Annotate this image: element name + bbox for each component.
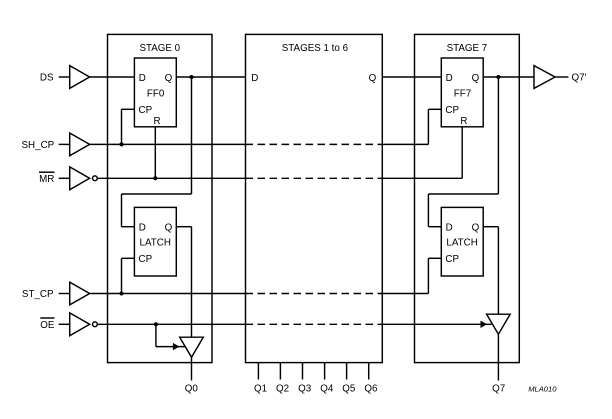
svg-text:Q7': Q7' <box>572 73 587 84</box>
svg-text:DS: DS <box>40 73 54 84</box>
svg-text:D: D <box>446 73 453 84</box>
svg-text:LATCH: LATCH <box>446 237 477 248</box>
svg-text:Q: Q <box>369 73 377 84</box>
svg-text:D: D <box>139 222 146 233</box>
svg-text:Q7: Q7 <box>492 383 505 394</box>
svg-text:D: D <box>251 73 258 84</box>
svg-text:D: D <box>139 73 146 84</box>
svg-text:STAGE 7: STAGE 7 <box>447 43 488 54</box>
svg-text:Q1: Q1 <box>254 383 267 394</box>
svg-text:Q: Q <box>165 222 173 233</box>
svg-text:FF0: FF0 <box>147 88 165 99</box>
svg-text:MLA010: MLA010 <box>528 384 557 393</box>
svg-text:Q5: Q5 <box>342 383 356 394</box>
svg-text:R: R <box>153 116 160 127</box>
svg-text:D: D <box>446 222 453 233</box>
svg-text:CP: CP <box>445 105 459 116</box>
svg-text:STAGE 0: STAGE 0 <box>139 43 180 54</box>
svg-text:Q4: Q4 <box>320 383 334 394</box>
svg-text:Q6: Q6 <box>364 383 378 394</box>
svg-text:R: R <box>460 116 467 127</box>
svg-text:Q3: Q3 <box>298 383 312 394</box>
svg-text:LATCH: LATCH <box>140 237 171 248</box>
svg-text:SH_CP: SH_CP <box>22 140 55 151</box>
svg-text:CP: CP <box>139 105 153 116</box>
svg-text:CP: CP <box>139 254 153 265</box>
svg-text:FF7: FF7 <box>454 88 471 99</box>
svg-text:CP: CP <box>445 254 459 265</box>
svg-text:Q: Q <box>165 73 173 84</box>
svg-text:OE: OE <box>40 320 55 331</box>
svg-text:STAGES 1 to 6: STAGES 1 to 6 <box>282 43 349 54</box>
svg-text:MR: MR <box>39 174 54 185</box>
svg-text:Q: Q <box>472 222 480 233</box>
svg-text:Q: Q <box>472 73 480 84</box>
svg-text:ST_CP: ST_CP <box>22 289 54 300</box>
svg-text:Q2: Q2 <box>276 383 289 394</box>
svg-text:Q0: Q0 <box>185 383 199 394</box>
